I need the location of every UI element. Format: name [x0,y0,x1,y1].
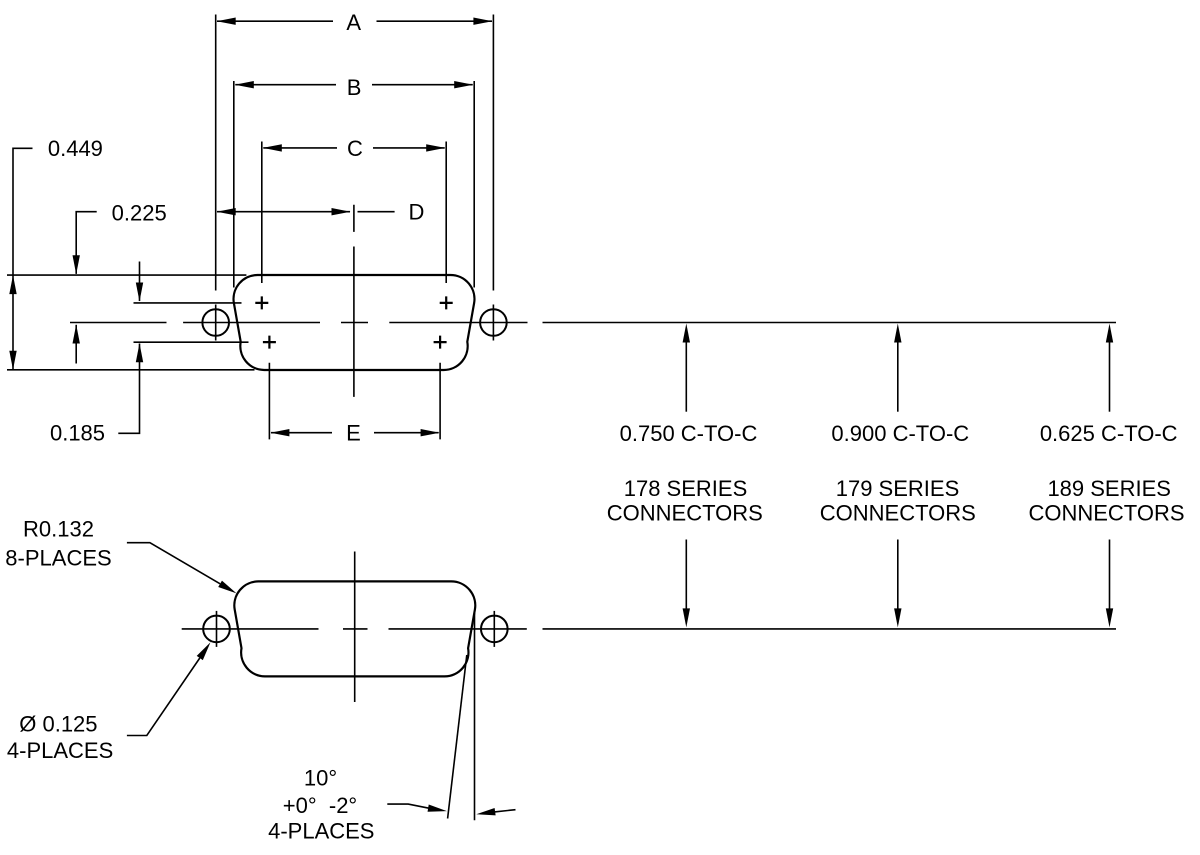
series arrow column 178 down [685,540,687,610]
dimension D line [217,211,395,213]
svg-text:CONNECTORS: CONNECTORS [1028,501,1184,526]
svg-text:0.185: 0.185 [50,420,105,445]
dimension E extension lines [269,363,440,440]
svg-text:4-PLACES: 4-PLACES [7,738,113,763]
angle dimension left leader [387,804,429,808]
svg-text:R0.132: R0.132 [23,517,94,542]
svg-text:178 SERIES: 178 SERIES [624,476,748,501]
svg-text:10°: 10° [304,765,337,790]
angle dimension right leader [495,810,516,812]
series arrow column 179 down [897,540,899,610]
connector outline bottom view [234,581,475,676]
vertical centerline bottom view [354,552,356,703]
mounting hole right bottom view [481,616,508,643]
mounting hole left top view [202,309,229,336]
svg-text:CONNECTORS: CONNECTORS [820,501,976,526]
mounting hole right crosshair vertical [492,305,494,341]
angle slant extension line [448,655,467,819]
dimension C extension lines [262,142,446,284]
extension line bottom pin row left [134,341,249,343]
series arrow column 179 up [897,342,899,412]
series arrow column 189 up [1109,342,1111,412]
angle reference vertical line [474,613,476,820]
svg-text:D: D [409,199,425,224]
dimension B line [235,84,472,86]
connector outline top view [234,275,475,370]
extension line bottom edge left [7,369,255,371]
svg-text:B: B [347,75,362,100]
leader R0.132 [127,543,220,584]
svg-text:4-PLACES: 4-PLACES [268,818,374,843]
svg-text:0.449: 0.449 [48,136,103,161]
long centerline to series arrows bottom [543,628,1117,630]
svg-text:0.625 C-TO-C: 0.625 C-TO-C [1040,421,1178,446]
pin mark bottom-right [434,336,447,349]
svg-text:189 SERIES: 189 SERIES [1047,476,1171,501]
svg-text:0.750 C-TO-C: 0.750 C-TO-C [620,421,758,446]
svg-text:179 SERIES: 179 SERIES [836,476,960,501]
dimension E line [271,432,439,434]
horizontal centerline bottom view [182,628,527,630]
svg-text:0.900 C-TO-C: 0.900 C-TO-C [831,421,969,446]
pin mark bottom-left [263,336,276,349]
vertical centerline top view [353,205,355,397]
mounting hole left bottom view [203,616,230,643]
svg-text:8-PLACES: 8-PLACES [5,545,111,570]
dimension 0.225 lower arrow [75,325,77,364]
dimension B extension lines [234,81,474,288]
svg-text:Ø 0.125: Ø 0.125 [19,712,97,737]
dimension C line [263,147,444,149]
mounting hole right top view [480,309,507,336]
mounting hole right bottom crosshair vertical [493,611,495,647]
series arrow column 178 up [685,342,687,412]
svg-text:0.225: 0.225 [112,201,167,226]
mounting hole left crosshair vertical [215,305,217,341]
dimension 0.449 leader bracket [13,148,33,369]
series arrow column 189 down [1109,540,1111,610]
svg-text:+0° -2°: +0° -2° [283,793,357,818]
svg-text:E: E [346,421,361,446]
dimension 0.225 leader bracket [76,212,97,274]
horizontal centerline top view [70,322,528,324]
svg-text:A: A [346,10,361,35]
mounting hole left bottom crosshair vertical [216,611,218,647]
dimension A extension lines [216,15,494,291]
extension line top edge left [7,274,246,276]
svg-text:C: C [347,136,363,161]
pin mark top-right [440,296,453,309]
dimension 0.185 leader bracket [118,344,139,434]
extension line top pin row left [134,302,242,304]
svg-text:CONNECTORS: CONNECTORS [607,501,763,526]
dimension A line [217,20,492,22]
pin mark top-left [255,296,268,309]
leader diameter 0.125 [127,658,200,736]
dimension 0.185 upper arrow [139,262,141,302]
long centerline to series arrows top [543,322,1117,324]
